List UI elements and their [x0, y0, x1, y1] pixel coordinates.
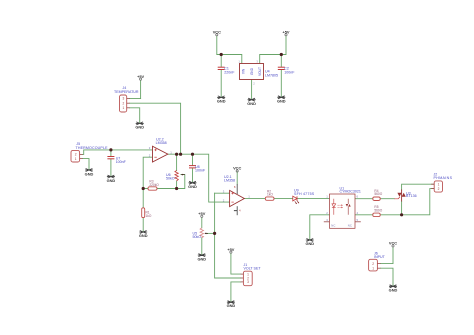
svg-text:560O: 560O	[374, 208, 382, 212]
svg-text:VCC: VCC	[213, 29, 221, 34]
svg-text:1: 1	[372, 267, 374, 271]
svg-text:100nF: 100nF	[195, 169, 206, 173]
svg-text:INPUT: INPUT	[374, 255, 386, 259]
svg-text:GND: GND	[85, 171, 94, 176]
svg-text:1kO: 1kO	[267, 193, 273, 197]
svg-text:VOUT: VOUT	[258, 67, 262, 76]
svg-text:LM358: LM358	[156, 141, 167, 145]
svg-text:LM358: LM358	[224, 179, 235, 183]
svg-text:VCC: VCC	[233, 166, 241, 171]
svg-text:PHMAINS: PHMAINS	[434, 176, 453, 180]
svg-text:GND: GND	[188, 184, 197, 189]
svg-text:+5V: +5V	[198, 211, 205, 216]
svg-text:GND: GND	[305, 241, 314, 246]
svg-text:3: 3	[123, 97, 125, 101]
svg-text:2: 2	[123, 101, 125, 105]
svg-text:100nF: 100nF	[116, 160, 127, 164]
svg-text:VOLT SET: VOLT SET	[244, 267, 262, 271]
svg-text:GND: GND	[389, 287, 398, 292]
svg-text:NC: NC	[331, 223, 335, 227]
svg-text:1: 1	[123, 106, 125, 110]
svg-text:+5V: +5V	[282, 29, 289, 34]
svg-text:3: 3	[247, 280, 249, 284]
svg-text:560O: 560O	[374, 192, 382, 196]
svg-text:GND: GND	[227, 303, 236, 308]
svg-text:1: 1	[438, 183, 440, 187]
svg-text:220kO: 220kO	[149, 183, 159, 187]
svg-text:THERMOCOUPLE: THERMOCOUPLE	[76, 146, 109, 150]
svg-text:50kO: 50kO	[166, 176, 175, 180]
svg-text:VIN: VIN	[242, 68, 246, 74]
svg-text:+5V: +5V	[227, 247, 234, 252]
svg-text:SFH 4775S: SFH 4775S	[294, 192, 315, 196]
svg-text:1kO: 1kO	[146, 214, 152, 218]
svg-text:GND: GND	[277, 99, 286, 104]
svg-text:1: 1	[75, 157, 77, 161]
svg-text:VCC: VCC	[389, 241, 397, 246]
svg-text:GND: GND	[197, 256, 206, 261]
svg-text:2: 2	[372, 262, 374, 266]
svg-text:TEMPERATUR: TEMPERATUR	[114, 90, 139, 94]
svg-text:50kO: 50kO	[193, 235, 202, 239]
svg-text:NC: NC	[348, 223, 352, 227]
svg-text:BT136: BT136	[406, 194, 417, 198]
svg-text:100nF: 100nF	[284, 71, 295, 75]
svg-text:LM7805: LM7805	[265, 74, 278, 78]
svg-text:2: 2	[438, 187, 440, 191]
svg-text:220nF: 220nF	[224, 71, 235, 75]
svg-text:GND: GND	[217, 99, 226, 104]
svg-text:GND: GND	[107, 178, 116, 183]
svg-text:GND: GND	[247, 101, 256, 106]
svg-text:+5V: +5V	[137, 74, 144, 79]
svg-text:GND: GND	[139, 233, 148, 238]
svg-text:CYMOC3021: CYMOC3021	[340, 190, 361, 194]
svg-text:GND: GND	[135, 125, 144, 130]
svg-text:GND: GND	[250, 67, 254, 75]
